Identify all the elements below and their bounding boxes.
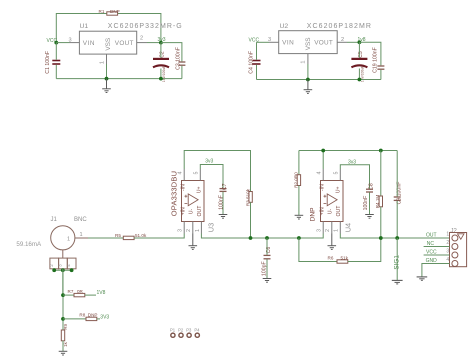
pin 1 stub U4	[334, 222, 341, 234]
capacitor C3	[176, 47, 186, 70]
junction R8	[61, 317, 65, 321]
svg-text:NC: NC	[427, 241, 435, 247]
svg-text:R4 1M: R4 1M	[375, 195, 380, 209]
svg-text:P4: P4	[194, 328, 200, 333]
svg-text:SIG1: SIG1	[394, 255, 401, 270]
wire C3 branch	[161, 43, 182, 79]
node NC label	[424, 241, 450, 247]
svg-text:P3: P3	[186, 328, 192, 333]
wire U3 out segment	[201, 234, 323, 239]
svg-text:P2: P2	[178, 328, 184, 333]
svg-text:U3: U3	[206, 223, 215, 232]
junction C5 rail U2	[358, 78, 362, 82]
svg-text:R7: R7	[68, 289, 74, 294]
svg-text:U4: U4	[344, 223, 353, 232]
svg-text:OUT: OUT	[197, 205, 203, 217]
svg-text:3: 3	[178, 229, 184, 232]
wire shield tie J1	[54, 269, 71, 271]
svg-text:C7: C7	[222, 183, 228, 190]
svg-text:1: 1	[99, 61, 105, 64]
svg-text:3: 3	[268, 37, 271, 43]
svg-text:1V8: 1V8	[97, 290, 106, 296]
svg-text:1: 1	[80, 232, 83, 238]
ground C6	[263, 279, 272, 283]
junction R7	[61, 293, 65, 297]
junction pin4 top rail U4	[321, 149, 325, 153]
ground R9	[59, 351, 68, 355]
junction R6 left rail	[297, 236, 301, 240]
pin 1 VSS stub U1	[99, 54, 106, 64]
testpoint P4	[194, 328, 200, 338]
wire to R8	[63, 318, 86, 320]
svg-text:+IN: +IN	[181, 207, 187, 215]
wire VCC top rail U1	[56, 14, 161, 43]
svg-text:2: 2	[325, 229, 331, 232]
junction VCC U1	[54, 41, 58, 45]
junction R4 rail	[379, 236, 383, 240]
svg-text:R3 510k: R3 510k	[245, 188, 250, 206]
node VCC label J2	[424, 250, 450, 256]
wire to R7	[63, 294, 74, 296]
capacitor C2 polarized	[153, 51, 169, 82]
wire BNC to R5	[88, 237, 123, 239]
svg-text:1: 1	[67, 236, 70, 242]
svg-text:C19 100nF: C19 100nF	[373, 47, 379, 73]
regulator U2 box	[279, 23, 372, 53]
svg-text:R2 0R0: R2 0R0	[293, 172, 298, 188]
wire R7 to 1V8	[85, 294, 96, 296]
svg-text:U-: U-	[189, 208, 195, 214]
junction C6 rail	[265, 236, 269, 240]
svg-text:XC6206P182MR: XC6206P182MR	[307, 23, 372, 30]
svg-text:J2: J2	[451, 229, 458, 235]
svg-text:DNP: DNP	[310, 207, 317, 222]
wire U4 top rail	[299, 151, 397, 170]
svg-text:1k: 1k	[63, 341, 68, 346]
wire VIN net U1	[56, 42, 69, 44]
pin 2 stub U4	[325, 222, 332, 234]
junction R4 top rail U4	[379, 149, 383, 153]
svg-text:R1: R1	[99, 9, 105, 14]
svg-text:-IN: -IN	[181, 184, 187, 191]
wire VSS to rail U2	[307, 64, 309, 80]
svg-text:R9: R9	[63, 323, 68, 329]
pin 4 stub U3	[178, 169, 185, 181]
pin 2 stub U1	[137, 36, 147, 43]
wire C19 branch	[359, 42, 381, 79]
capacitor C5 polarized	[351, 51, 367, 82]
wire R2 to ground	[298, 186, 300, 216]
svg-text:1: 1	[334, 229, 340, 232]
wire VSS to rail U1	[106, 64, 108, 79]
svg-text:16V/100uF: 16V/100uF	[162, 66, 166, 82]
capacitor C19	[373, 47, 385, 73]
svg-text:2: 2	[186, 229, 192, 232]
wire bottom rail U1	[56, 78, 182, 80]
port SIG1	[392, 238, 403, 284]
capacitor C1	[45, 51, 60, 74]
svg-text:GND: GND	[426, 258, 438, 264]
junction C2 rail U1	[159, 77, 163, 81]
svg-text:51k: 51k	[341, 255, 349, 260]
capacitor C7	[218, 183, 228, 209]
svg-text:OPA333DBU: OPA333DBU	[169, 171, 178, 216]
svg-text:2: 2	[446, 240, 449, 246]
svg-text:1: 1	[195, 229, 201, 232]
svg-text:3: 3	[317, 229, 323, 232]
ground R2	[295, 215, 304, 219]
svg-text:C3 100nF: C3 100nF	[176, 47, 182, 70]
wire BNC shield chain	[62, 270, 64, 330]
svg-text:C4 100nF: C4 100nF	[249, 51, 255, 74]
ground U1	[102, 79, 111, 93]
connector J1 BNC	[49, 217, 88, 269]
junction VSS rail U2	[306, 78, 310, 82]
wire bottom rail U2	[257, 79, 381, 81]
wire R4 to rail	[380, 207, 382, 238]
op-amp regulator U1 box	[79, 23, 182, 54]
svg-text:5: 5	[334, 172, 340, 175]
pin 3 stub U2	[268, 37, 279, 43]
wire U3 feedback top rail	[184, 151, 250, 192]
svg-text:U+: U+	[197, 187, 203, 194]
svg-text:59.16mA: 59.16mA	[16, 241, 42, 248]
svg-text:3v3: 3v3	[205, 158, 213, 164]
svg-text:J1: J1	[51, 217, 58, 223]
testpoint P1	[170, 328, 176, 338]
svg-text:1: 1	[301, 60, 307, 63]
junction SIG1 rail	[395, 236, 399, 240]
ground U3 pin2	[189, 234, 198, 250]
svg-text:1: 1	[446, 231, 449, 237]
resistor R9	[61, 323, 68, 346]
resistor R1	[99, 9, 120, 15]
ground U4 pin2	[328, 234, 337, 250]
svg-text:VIN: VIN	[282, 40, 294, 47]
svg-text:VCC: VCC	[426, 250, 437, 256]
svg-text:R8: R8	[79, 313, 85, 318]
svg-text:R5: R5	[115, 233, 121, 238]
svg-text:-IN: -IN	[320, 184, 326, 191]
connector J2	[450, 229, 467, 267]
svg-text:C1 100nF: C1 100nF	[45, 51, 51, 74]
wire shield down J1	[62, 269, 64, 295]
wire VIN net U2	[257, 41, 270, 43]
pin 2 stub U2	[337, 37, 347, 43]
svg-text:BNC: BNC	[74, 217, 87, 223]
svg-text:3: 3	[69, 37, 72, 43]
svg-text:XC6206P332MR-G: XC6206P332MR-G	[108, 23, 183, 30]
svg-text:51.0k: 51.0k	[135, 233, 147, 238]
op-amp U3	[169, 171, 215, 232]
svg-text:OUT: OUT	[426, 233, 437, 239]
wire C5 vertical	[358, 42, 360, 79]
wire 3v3 U4	[340, 165, 369, 189]
pin 4 stub U4	[317, 169, 324, 181]
node GND label J2	[422, 258, 450, 277]
pin 1 stub U3	[195, 222, 202, 234]
svg-text:U2: U2	[280, 23, 289, 30]
svg-text:5: 5	[194, 172, 200, 175]
svg-text:VOUT: VOUT	[115, 40, 134, 47]
ground C8	[365, 215, 374, 219]
svg-text:P1: P1	[170, 328, 176, 333]
svg-text:2: 2	[341, 37, 344, 43]
wire C2 vertical	[160, 43, 162, 79]
svg-text:3: 3	[446, 248, 449, 254]
svg-text:DNP: DNP	[110, 9, 120, 14]
svg-text:C8: C8	[369, 183, 375, 190]
svg-text:OUT: OUT	[336, 205, 342, 217]
wire VOUT net U1	[147, 42, 161, 44]
earth ground J2	[417, 277, 428, 280]
pin 3 stub U1	[69, 37, 80, 43]
junction VSS rail U1	[105, 77, 109, 81]
pin 5 stub U3	[194, 169, 201, 181]
testpoint P3	[186, 328, 192, 338]
pin 2 stub U3	[186, 222, 193, 234]
resistor R8	[79, 313, 97, 321]
wire C1 vertical	[55, 43, 57, 79]
svg-text:4: 4	[178, 172, 184, 175]
svg-text:R6: R6	[328, 255, 334, 260]
svg-text:100nF: 100nF	[363, 196, 369, 211]
svg-text:2: 2	[140, 36, 143, 42]
svg-text:VOUT: VOUT	[314, 40, 333, 47]
junction shield pins J1	[52, 268, 73, 272]
svg-text:0R: 0R	[77, 289, 84, 294]
capacitor C4	[249, 51, 261, 74]
resistor R2	[293, 151, 300, 188]
pin 5 stub U4	[334, 169, 341, 181]
resistor R5	[115, 233, 147, 240]
capacitor C8	[363, 183, 375, 210]
svg-text:U1: U1	[80, 23, 89, 30]
op-amp U4	[310, 181, 353, 233]
resistor R7	[68, 289, 85, 297]
wire VOUT net U2	[347, 41, 359, 43]
wire R8 to 3V3	[97, 318, 100, 320]
wire U4 out segment	[340, 234, 449, 239]
wire R5 to U3 pin3	[134, 234, 184, 239]
resistor R3	[245, 188, 252, 206]
wire R3 to rail	[250, 202, 252, 238]
svg-text:3V3: 3V3	[100, 314, 109, 320]
svg-text:VSS: VSS	[105, 38, 112, 51]
junction R3 rail	[249, 236, 253, 240]
svg-text:U-: U-	[328, 208, 334, 214]
resistor R4	[375, 151, 383, 209]
wire C9 vertical	[396, 151, 398, 239]
resistor R6 loop	[299, 238, 381, 263]
svg-text:4: 4	[446, 257, 449, 263]
wire C8 to ground	[369, 192, 371, 214]
svg-text:DNP: DNP	[88, 313, 98, 318]
wire C4 vertical U2	[256, 42, 258, 79]
pin 3 stub U3	[178, 222, 185, 234]
junction VOUT U2	[358, 40, 362, 44]
pin 3 stub U4	[317, 222, 324, 234]
pin 1 VSS stub U2	[301, 54, 308, 64]
wire C7 to ground	[222, 192, 224, 215]
wire R9 to ground	[62, 341, 64, 351]
capacitor C6	[262, 247, 272, 276]
wire 3v3 U3	[200, 165, 223, 189]
wire C6 vertical	[266, 238, 268, 278]
svg-text:U+: U+	[336, 187, 342, 194]
junction VOUT U1	[159, 41, 163, 45]
svg-text:4: 4	[317, 172, 323, 175]
ground U2	[304, 80, 313, 94]
svg-text:VIN: VIN	[83, 40, 95, 47]
svg-text:VSS: VSS	[305, 38, 312, 51]
capacitor C9	[394, 182, 403, 205]
testpoint P2	[178, 328, 184, 338]
svg-text:+IN: +IN	[320, 207, 326, 215]
ground C7	[219, 215, 228, 219]
